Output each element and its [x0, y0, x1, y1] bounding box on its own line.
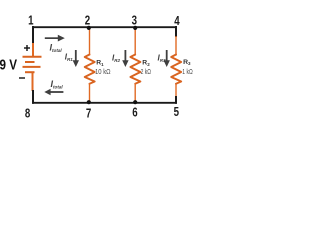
svg-text:5: 5 [174, 104, 179, 119]
resistor R2 zigzag [130, 55, 140, 84]
svg-text:2: 2 [85, 13, 90, 28]
svg-text:3: 3 [132, 13, 137, 28]
resistor R1 zigzag [85, 55, 95, 84]
svg-text:Itotal: Itotal [50, 43, 63, 53]
svg-text:10 kΩ: 10 kΩ [95, 69, 111, 76]
svg-text:IR2: IR2 [112, 54, 120, 63]
svg-text:8: 8 [25, 106, 30, 121]
junction dot node 2 [87, 26, 91, 30]
wire right column top (orange to R3) [175, 36, 177, 56]
wire branch R2 bottom [134, 83, 136, 103]
battery minus sign [19, 77, 25, 79]
battery V1 9V plate long top (+) [23, 56, 42, 58]
wire right column bottom (orange from R3) [175, 83, 177, 97]
current arrow I_total bottom (leftward) [44, 89, 63, 95]
svg-text:Itotal: Itotal [51, 79, 64, 89]
current arrow I_R2 (downward) [122, 50, 128, 67]
junction dot node 7 [87, 100, 91, 104]
wire branch R1 bottom [89, 83, 91, 103]
wire bottom rail node8-node5 [32, 102, 177, 104]
wire left column bottom (black part) [32, 90, 34, 104]
svg-text:IR1: IR1 [65, 53, 73, 62]
battery V1 plate short [25, 61, 35, 63]
svg-text:1 kΩ: 1 kΩ [182, 69, 192, 76]
battery V1 plate long [23, 66, 41, 68]
wire right column bottom (black part) [175, 96, 177, 104]
wire branch R2 top [134, 27, 136, 56]
wire branch R1 top [89, 27, 91, 56]
battery plus sign [24, 45, 30, 51]
wire right column top (black part) [175, 26, 177, 37]
svg-text:R2: R2 [142, 60, 150, 67]
junction dot node 6 [133, 100, 137, 104]
wire top rail node1-node4 [32, 26, 177, 28]
svg-text:6: 6 [132, 105, 137, 120]
wire left column top (black part) [32, 26, 34, 44]
resistor R3 zigzag [171, 55, 181, 84]
wire left column top (orange to battery +) [32, 43, 34, 56]
wire left column bottom (orange from battery -) [32, 73, 34, 91]
svg-text:7: 7 [86, 106, 91, 121]
svg-text:IR3: IR3 [158, 54, 166, 63]
svg-text:9 V: 9 V [0, 57, 17, 73]
svg-text:R1: R1 [96, 60, 104, 67]
current arrow I_R3 (downward) [164, 50, 170, 67]
current arrow I_R1 (downward) [73, 50, 79, 67]
svg-text:4: 4 [174, 13, 180, 28]
svg-text:1: 1 [28, 13, 33, 28]
svg-text:2 kΩ: 2 kΩ [141, 69, 151, 76]
svg-text:R3: R3 [183, 59, 191, 66]
current arrow I_total top (rightward) [45, 35, 65, 42]
battery V1 plate short bottom (-) [25, 71, 35, 73]
junction dot node 3 [133, 26, 137, 30]
